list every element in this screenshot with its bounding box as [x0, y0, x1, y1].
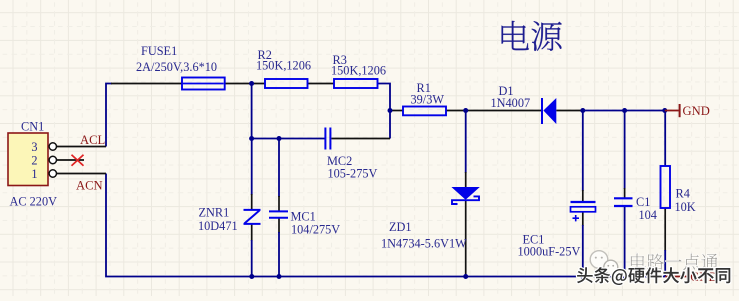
wire: ZD1 branch vertical	[465, 111, 467, 277]
MC2 value label 105-275V	[328, 166, 378, 180]
wire: AC L top run from CN1 pin3 corner to fuse row	[106, 84, 182, 147]
svg-text:104/275V: 104/275V	[291, 223, 340, 237]
junction C1 bottom	[622, 274, 627, 279]
wire: R2 to R3	[308, 83, 335, 85]
junction ZD1 bottom	[463, 274, 468, 279]
svg-text:1: 1	[31, 167, 37, 181]
zener diode ZD1	[451, 187, 479, 204]
junction R1 input	[388, 108, 393, 113]
wire: C1 branch vertical	[624, 111, 626, 277]
R2 value label 150K,1206	[256, 59, 311, 73]
wire: EC1 branch vertical	[582, 111, 584, 277]
svg-text:1000uF-25V: 1000uF-25V	[518, 245, 581, 259]
svg-text:MC1: MC1	[291, 209, 316, 223]
capacitor MC1	[269, 211, 288, 217]
CN1 pin number 2	[31, 153, 37, 167]
svg-text:GND: GND	[683, 104, 710, 118]
wire: D1 cathode run to GND port	[556, 110, 665, 112]
power port GND (bottom right)	[665, 270, 717, 284]
svg-text:R4: R4	[676, 186, 690, 200]
C1 designator label	[636, 195, 650, 209]
svg-text:1N4007: 1N4007	[491, 96, 531, 110]
fuse FUSE1	[182, 78, 225, 90]
svg-text:ACN: ACN	[76, 179, 103, 193]
resistor R1	[403, 107, 446, 116]
svg-text:39/3W: 39/3W	[411, 93, 445, 107]
MC2 designator label	[327, 154, 352, 168]
FUSE1 designator label	[141, 44, 177, 58]
svg-text:10D471: 10D471	[198, 219, 238, 233]
wire: R4 branch vertical	[664, 111, 666, 277]
svg-text:104: 104	[639, 208, 657, 222]
junction R4 top	[662, 108, 667, 113]
varistor ZNR1	[244, 210, 261, 224]
EC1 value label 1000uF-25V	[518, 245, 581, 259]
junction C1 top	[622, 108, 627, 113]
wire: CN1 pin1 lead	[57, 173, 106, 175]
watermark logo (two smiley chat bubbles)	[590, 251, 628, 276]
ZNR1 designator label	[199, 206, 230, 220]
watermark text 头条@硬件大小不同 (dark, white outline)	[577, 267, 730, 285]
CN1 value label AC 220V	[10, 194, 58, 208]
junction MC2 row left	[249, 136, 254, 141]
wire: R1 to D1 through ZD1 node	[446, 110, 542, 112]
wire: CN1 pin3 lead	[57, 146, 106, 148]
R3 value label 150K,1206	[331, 63, 386, 77]
svg-text:AC 220V: AC 220V	[10, 194, 58, 208]
junction EC1 top	[580, 108, 585, 113]
EC1 designator label	[523, 232, 545, 246]
wire: R3 right to vertical drop	[378, 84, 391, 139]
R1 designator label	[417, 81, 431, 95]
svg-text:ACL: ACL	[80, 133, 105, 147]
resistor R2	[265, 79, 308, 88]
junction ZNR1 bottom	[249, 274, 254, 279]
R2 designator label	[258, 48, 272, 62]
svg-text:CN1: CN1	[21, 120, 44, 134]
junction MC1 top	[277, 136, 282, 141]
svg-text:ZNR1: ZNR1	[199, 206, 230, 220]
wire: R1 row left	[390, 110, 403, 112]
diode D1	[542, 98, 556, 124]
svg-text:1N4734-5.6V1W: 1N4734-5.6V1W	[381, 236, 467, 250]
wire: MC2 row horizontal	[252, 138, 390, 140]
wire: MC1 branch vertical	[278, 139, 280, 277]
CN1 designator label	[21, 120, 44, 134]
connector CN1	[8, 133, 57, 186]
wire: CN1 pin2 stub (no connect)	[57, 159, 84, 161]
svg-text:2: 2	[31, 153, 37, 167]
R4 value label 10K	[675, 200, 696, 214]
C1 value label 104	[639, 208, 657, 222]
watermark text 电路一点通 (gray)	[631, 254, 718, 270]
MC1 value label 104/275V	[291, 223, 340, 237]
svg-text:ZD1: ZD1	[389, 220, 412, 234]
svg-text:C1: C1	[636, 195, 650, 209]
wire: node A vertical (fuse row down to MC2 row)	[251, 84, 253, 139]
electrolytic capacitor EC1	[571, 202, 596, 221]
svg-text:FUSE1: FUSE1	[141, 44, 177, 58]
ZD1 designator label	[389, 220, 412, 234]
resistor R3	[334, 79, 378, 88]
R1 value label 39/3W	[411, 93, 445, 107]
wire: ZNR1 branch vertical	[251, 139, 253, 277]
wire: AC N vertical from CN1 pin1 down to bottom rail	[106, 174, 665, 277]
no-connect X on CN1 pin2	[72, 155, 84, 166]
junction MC1 bottom	[277, 274, 282, 279]
junction ZD1 top	[463, 108, 468, 113]
svg-text:150K,1206: 150K,1206	[256, 59, 311, 73]
junction EC1 bottom	[580, 274, 585, 279]
resistor R4	[661, 166, 671, 208]
svg-text:2A/250V,3.6*10: 2A/250V,3.6*10	[136, 60, 217, 74]
D1 value label 1N4007	[491, 96, 531, 110]
ZD1 value label 1N4734-5.6V1W	[381, 236, 467, 250]
wire: fuse output to node A	[225, 83, 265, 85]
capacitor MC2	[325, 128, 330, 150]
CN1 pin number 1	[31, 167, 37, 181]
MC1 designator label	[291, 209, 316, 223]
junction node A	[249, 81, 254, 86]
svg-text:105-275V: 105-275V	[328, 166, 378, 180]
ZNR1 value label 10D471	[198, 219, 238, 233]
svg-text:150K,1206: 150K,1206	[331, 63, 386, 77]
net label ACL	[80, 133, 105, 147]
CN1 pin number 3	[31, 140, 37, 154]
power port GND (top right)	[665, 104, 710, 118]
capacitor C1	[614, 198, 633, 206]
R4 designator label	[676, 186, 690, 200]
schematic title 电源 (Power)	[502, 21, 562, 51]
svg-text:10K: 10K	[675, 200, 696, 214]
D1 designator label	[499, 84, 514, 98]
FUSE1 value label 2A/250V,3.6*10	[136, 60, 217, 74]
R3 designator label	[333, 53, 347, 67]
net label ACN	[76, 179, 103, 193]
svg-text:3: 3	[31, 140, 37, 154]
